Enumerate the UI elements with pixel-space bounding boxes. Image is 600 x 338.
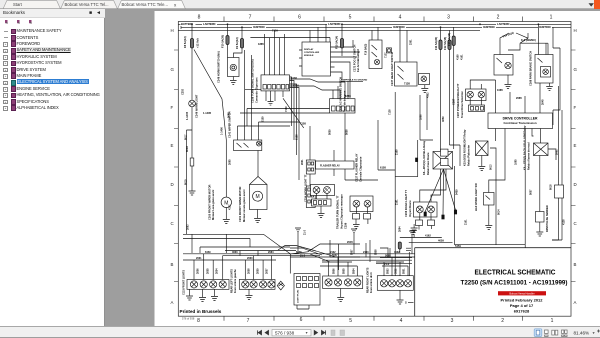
- lamp: [354, 279, 361, 286]
- svg-text:B: B: [574, 262, 577, 267]
- wire mid verticals: [309, 126, 311, 186]
- wire mid long vertical: [394, 92, 396, 276]
- svg-text:5: 5: [349, 318, 352, 324]
- fuse F9: [240, 39, 243, 49]
- wire drops into rear left: [245, 256, 271, 280]
- svg-text:K6—FP2(1) LOW BLA Relay: K6—FP2(1) LOW BLA Relay: [422, 140, 426, 175]
- svg-text:6159: 6159: [205, 251, 211, 254]
- wire drops tail: [384, 258, 408, 276]
- wire: [257, 151, 259, 219]
- ac warning switch C230 connector: [330, 99, 356, 113]
- light plug connector box: [294, 274, 320, 306]
- connector strip rear left lights: [239, 280, 275, 290]
- node IGNITION: [252, 25, 266, 29]
- connector J3 small: [306, 186, 315, 208]
- display controller module U1: [302, 42, 331, 76]
- wire rail: [308, 244, 360, 270]
- white page sheet: [155, 11, 600, 326]
- work light connector: [312, 199, 332, 206]
- svg-text:Relais Feux Route: Relais Feux Route: [426, 152, 430, 175]
- svg-text:Centrale Clignotante: Centrale Clignotante: [359, 156, 363, 182]
- svg-text:1-1405: 1-1405: [185, 111, 189, 120]
- junction dot: [191, 23, 193, 25]
- svg-text:5058: 5058: [385, 255, 391, 258]
- svg-text:Voyant Route: Voyant Route: [408, 200, 412, 217]
- svg-text:4162: 4162: [394, 251, 400, 254]
- lamp: [268, 281, 275, 288]
- ground: [536, 232, 543, 236]
- wire diag merge: [278, 246, 336, 263]
- relay K6-FP2 low beam: [433, 152, 453, 170]
- svg-text:9014: 9014: [498, 209, 501, 215]
- ground: [485, 226, 492, 230]
- turn signal switch connector C258: [261, 75, 290, 91]
- display controller pins: [299, 47, 335, 72]
- sidebar: [0, 9, 105, 326]
- svg-text:DRIVE CONTROLLER: DRIVE CONTROLLER: [503, 117, 538, 121]
- ground: [223, 220, 230, 224]
- lamp: [219, 281, 226, 288]
- wire: [225, 234, 227, 253]
- svg-text:2059: 2059: [257, 268, 260, 274]
- power view connector: [469, 105, 485, 112]
- svg-text:7: 7: [249, 15, 252, 21]
- svg-text:C272 FOG LT SWITCH: C272 FOG LT SWITCH: [353, 45, 357, 72]
- svg-text:Printed February 2012: Printed February 2012: [500, 297, 543, 302]
- svg-text:7138: 7138: [404, 82, 410, 86]
- junction dot: [227, 23, 229, 25]
- roomlight relay K15: [476, 141, 489, 156]
- junction dot: [341, 23, 343, 25]
- lamp: [250, 281, 257, 288]
- node LANTERN: [496, 22, 510, 26]
- wire: [378, 120, 395, 170]
- ground under C115 c: [211, 289, 218, 300]
- svg-text:C230 AC-WARNING SWITCH: C230 AC-WARNING SWITCH: [339, 77, 343, 112]
- svg-text:LAMPHOLE TO GROUND: LAMPHOLE TO GROUND: [341, 79, 368, 82]
- svg-text:6: 6: [298, 15, 301, 21]
- svg-text:576 of 938: 576 of 938: [182, 317, 195, 321]
- svg-text:C: C: [574, 221, 577, 226]
- svg-text:C258 TURN SIGNAL SWITCH (SOA): C258 TURN SIGNAL SWITCH (SOA): [251, 59, 255, 103]
- svg-text:7137: 7137: [385, 52, 388, 58]
- work light lamps C234: [311, 185, 335, 196]
- bottom bar: [0, 326, 600, 337]
- frame column ticks bottom: [224, 316, 523, 321]
- svg-text:5459: 5459: [455, 244, 461, 248]
- svg-text:4138: 4138: [563, 219, 566, 225]
- svg-text:T2250 (S/N AC1911001 - AC19119: T2250 (S/N AC1911001 - AC1911999): [461, 280, 568, 287]
- svg-text:D: D: [574, 182, 577, 187]
- svg-text:C237 HEAD LIGHT SWITCH: C237 HEAD LIGHT SWITCH: [390, 52, 394, 86]
- svg-text:RPM PULSE SENDER: RPM PULSE SENDER: [545, 205, 549, 232]
- wire right margin vertical: [552, 86, 559, 240]
- svg-text:C201 FRONT WIPER MOTOR: C201 FRONT WIPER MOTOR: [238, 186, 242, 222]
- svg-text:2084: 2084: [268, 251, 274, 254]
- svg-text:3: 3: [451, 318, 454, 324]
- svg-text:2045: 2045: [542, 99, 545, 105]
- wire: [345, 179, 378, 181]
- node LANTERN: [327, 22, 341, 26]
- svg-text:F8 5A(12): F8 5A(12): [183, 36, 187, 48]
- wire: [225, 140, 227, 197]
- svg-text:FLASHER RELAY: FLASHER RELAY: [320, 165, 340, 168]
- svg-text:IGNITION: IGNITION: [539, 25, 551, 29]
- svg-text:C287: C287: [452, 98, 456, 105]
- wire: [228, 45, 243, 58]
- svg-text:K-5 (NO/NC): K-5 (NO/NC): [521, 38, 536, 42]
- svg-text:Moteur essuie-glace avant: Moteur essuie-glace avant: [242, 189, 246, 222]
- svg-text:E: E: [171, 143, 174, 148]
- wire: [552, 198, 562, 240]
- terminal pad: [442, 215, 444, 219]
- wire fog switch feeds: [372, 27, 378, 40]
- lamp: [210, 281, 217, 288]
- wire: [341, 24, 343, 56]
- svg-text:1085: 1085: [515, 159, 518, 165]
- node IGNITION: [392, 25, 406, 29]
- wire turn signal fan right: [290, 77, 346, 180]
- wire riser: [366, 240, 370, 262]
- svg-text:Relais Alarme de recul: Relais Alarme de recul: [527, 142, 531, 170]
- svg-text:4063: 4063: [232, 251, 238, 254]
- svg-text:F: F: [171, 105, 174, 110]
- wire: [528, 24, 548, 54]
- wire: [470, 80, 495, 105]
- road light connectors: [416, 220, 435, 226]
- svg-text:5059: 5059: [329, 129, 332, 135]
- svg-text:2045: 2045: [347, 240, 353, 244]
- headlight switch C237: [395, 62, 430, 86]
- svg-text:7159: 7159: [272, 29, 278, 33]
- node IGNITION: [482, 25, 496, 29]
- svg-text:CONTROLLER: CONTROLLER: [304, 52, 320, 54]
- wire: [395, 140, 418, 177]
- wire jog under light plug: [290, 254, 309, 309]
- svg-text:5554: 5554: [353, 268, 356, 274]
- svg-text:4137: 4137: [229, 204, 232, 210]
- node LANTERN: [202, 22, 217, 26]
- svg-text:Page 4 of 17: Page 4 of 17: [510, 303, 534, 308]
- svg-text:H: H: [171, 28, 174, 33]
- wire: [441, 30, 461, 151]
- svg-text:4160: 4160: [457, 54, 460, 60]
- svg-text:5551: 5551: [403, 268, 406, 274]
- lantern bus wire: [178, 29, 480, 31]
- svg-text:Tmo. de detresse: Tmo. de detresse: [343, 90, 347, 112]
- svg-text:6158: 6158: [380, 166, 386, 170]
- svg-text:Relais Plafonnier: Relais Plafonnier: [467, 145, 471, 166]
- wire: [482, 148, 496, 166]
- svg-text:1: 1: [550, 15, 553, 21]
- junction dot: [538, 23, 540, 25]
- svg-text:H: H: [574, 28, 577, 33]
- wire rail right group: [320, 257, 360, 266]
- svg-text:6159: 6159: [262, 116, 265, 122]
- svg-text:2085: 2085: [516, 96, 522, 100]
- wire band risers: [298, 232, 412, 257]
- SECTION: bottom connectors: [183, 228, 415, 309]
- svg-text:2161: 2161: [465, 219, 468, 225]
- svg-text:2061: 2061: [301, 159, 304, 165]
- lamp: [396, 280, 403, 287]
- svg-text:4138: 4138: [291, 76, 297, 80]
- node BATTERY: [181, 22, 196, 26]
- svg-text:+12 Volt: +12 Volt: [195, 38, 199, 48]
- svg-text:8018: 8018: [185, 146, 189, 152]
- svg-text:4139: 4139: [293, 84, 299, 88]
- svg-text:8018: 8018: [550, 184, 553, 190]
- wire: [247, 82, 345, 161]
- wire: [232, 77, 234, 81]
- title block divider lines: [415, 248, 571, 317]
- wire: [317, 193, 328, 213]
- beacon diamond: [277, 281, 284, 290]
- indicator box: [387, 48, 392, 53]
- svg-text:4161: 4161: [461, 54, 464, 60]
- svg-text:F10 5A(30): F10 5A(30): [221, 35, 225, 48]
- road light lamps C206: [414, 202, 438, 217]
- fuse F11: [439, 40, 442, 50]
- red revision bar: [498, 291, 546, 295]
- svg-text:2061: 2061: [196, 257, 202, 260]
- svg-text:C267 POWER BOSRACH TT: C267 POWER BOSRACH TT: [456, 83, 460, 118]
- wire lower rails extra: [183, 239, 290, 254]
- svg-text:8017: 8017: [185, 134, 188, 140]
- wire: [191, 48, 193, 100]
- svg-text:TRAILER TURN SIGNAL TT: TRAILER TURN SIGNAL TT: [336, 195, 340, 229]
- ground under tail: [397, 290, 404, 304]
- svg-text:IGNITION: IGNITION: [393, 25, 405, 29]
- wire: [225, 208, 227, 220]
- wire: [191, 107, 193, 158]
- wire roomlight run: [489, 129, 505, 245]
- connector J2 small: [306, 160, 315, 174]
- wire: [539, 222, 541, 232]
- svg-text:Travel Drive Selection: Travel Drive Selection: [460, 91, 464, 118]
- wire relay to road lights: [420, 169, 446, 202]
- svg-text:5058: 5058: [346, 129, 349, 135]
- schematic frame border: [178, 22, 571, 317]
- wire: [419, 213, 432, 230]
- svg-text:HAZ WORK LIGHT SW: HAZ WORK LIGHT SW: [474, 183, 478, 211]
- terminal pad: [416, 158, 418, 162]
- wire: [540, 149, 556, 212]
- svg-text:Far Anti-Brouillard: Far Anti-Brouillard: [356, 49, 360, 72]
- svg-text:7159: 7159: [285, 106, 288, 112]
- terminal pad: [454, 210, 456, 214]
- svg-text:F9 5A(12): F9 5A(12): [235, 37, 239, 49]
- wire turn signal feeds up: [265, 30, 285, 75]
- wire lamp to ground link: [333, 81, 363, 98]
- park brake switch C259: [535, 55, 553, 84]
- svg-text:S: S: [405, 301, 407, 305]
- fuse F8: [190, 39, 193, 49]
- wire connector rail: [223, 255, 320, 257]
- ground: [410, 231, 417, 235]
- svg-text:8: 8: [198, 15, 201, 21]
- svg-text:Feux arriere gauche: Feux arriere gauche: [234, 269, 237, 293]
- wire: [453, 27, 455, 149]
- lamp: [190, 281, 197, 288]
- row letters left: [171, 28, 175, 305]
- fuse F10: [226, 36, 229, 45]
- wire band rail B: [290, 257, 415, 263]
- svg-text:IGNITION: IGNITION: [483, 25, 495, 29]
- ground band 3: [409, 231, 415, 235]
- wire: [334, 150, 345, 180]
- resistor block: [190, 158, 194, 166]
- svg-text:8: 8: [197, 318, 200, 324]
- wire: [455, 145, 461, 245]
- svg-text:C115 FRONT LIGHTS: C115 FRONT LIGHTS: [183, 270, 186, 295]
- ignition bus wire: [181, 26, 571, 30]
- wire drops into strip C115: [194, 254, 223, 280]
- svg-text:9013: 9013: [490, 164, 493, 170]
- svg-text:5555: 5555: [343, 268, 346, 274]
- tab bar: [0, 0, 600, 9]
- column numbers bottom: [197, 317, 554, 324]
- svg-text:C256: C256: [344, 222, 348, 229]
- ground under rear left: [246, 289, 253, 299]
- wire rail left: [183, 259, 276, 261]
- svg-text:G: G: [171, 67, 175, 72]
- connector boxes trailer: [353, 214, 371, 220]
- svg-text:2160: 2160: [396, 149, 399, 155]
- wire C258 bottom drops: [266, 91, 283, 101]
- svg-text:C253: C253: [182, 88, 185, 95]
- battery bus wire: [178, 23, 571, 25]
- wire stub s: [408, 302, 414, 304]
- svg-text:F: F: [574, 105, 577, 110]
- rpm sender B1: [536, 212, 545, 223]
- row letters right: [574, 28, 578, 305]
- SECTION: left area: [183, 24, 345, 255]
- wire: [500, 33, 509, 84]
- wire right column: [553, 80, 560, 125]
- bottom tiny labels: [183, 251, 408, 305]
- wire battery drop: [191, 24, 193, 38]
- wire: [488, 183, 490, 225]
- ground: [254, 219, 261, 223]
- svg-text:C249 WARN LIGHT: C249 WARN LIGHT: [195, 94, 199, 118]
- svg-text:4059: 4059: [442, 116, 445, 122]
- svg-text:C234 WORK LIGHT TT: C234 WORK LIGHT TT: [304, 174, 308, 202]
- svg-text:F12 5A(15): F12 5A(15): [443, 37, 447, 50]
- wire: [420, 95, 433, 140]
- wire rail tail: [376, 258, 412, 267]
- wire: [426, 95, 428, 130]
- svg-text:F11 5A(26): F11 5A(26): [434, 37, 438, 50]
- svg-text:2361: 2361: [410, 39, 413, 45]
- backup alarm relay K6: [534, 143, 549, 156]
- svg-text:1885: 1885: [345, 94, 351, 98]
- svg-text:2058: 2058: [248, 268, 251, 274]
- fog light switch C272: [369, 40, 382, 69]
- svg-text:8019: 8019: [185, 179, 188, 185]
- frame column ticks top: [224, 17, 523, 22]
- svg-text:2161: 2161: [396, 199, 399, 205]
- svg-text:2: 2: [501, 318, 504, 324]
- svg-text:5459: 5459: [456, 189, 459, 195]
- ground: [353, 225, 360, 229]
- wire: [241, 27, 243, 38]
- svg-text:G: G: [574, 67, 578, 72]
- wire drops rear right: [329, 257, 358, 276]
- svg-text:6158: 6158: [296, 134, 299, 140]
- wire: [553, 27, 560, 80]
- svg-text:DISPLAY: DISPLAY: [304, 48, 314, 51]
- svg-text:4: 4: [400, 318, 403, 324]
- svg-text:F16 5A(3): F16 5A(3): [365, 44, 368, 55]
- wire: [335, 40, 361, 98]
- wire diagonal: [194, 50, 226, 141]
- ground: [478, 167, 485, 171]
- svg-text:6: 6: [300, 317, 303, 323]
- svg-text:2054: 2054: [216, 268, 219, 274]
- lamp: [404, 280, 411, 287]
- svg-text:7138: 7138: [389, 109, 392, 115]
- svg-text:F13 5A(13): F13 5A(13): [447, 33, 451, 46]
- flasher relay K2: [316, 161, 355, 169]
- lamp: [380, 280, 387, 287]
- svg-text:5057: 5057: [332, 254, 338, 257]
- svg-text:4: 4: [399, 15, 402, 21]
- svg-text:Bobcat Versa Handler: Bobcat Versa Handler: [509, 291, 534, 295]
- wire ignition drop: [227, 24, 229, 35]
- svg-text:5553: 5553: [387, 268, 390, 274]
- canvas: [105, 9, 600, 326]
- svg-text:Feux arriere droit: Feux arriere droit: [370, 272, 373, 293]
- fuse F15: [340, 39, 343, 49]
- lamp: [200, 281, 207, 288]
- svg-text:2061: 2061: [556, 149, 559, 155]
- ground: [230, 81, 237, 85]
- horn switch C248: [228, 58, 240, 77]
- wire: [400, 27, 425, 88]
- svg-text:4162: 4162: [427, 92, 430, 98]
- wire drops from drive controller: [496, 129, 541, 245]
- lamp: [334, 279, 341, 286]
- svg-text:IGNITION: IGNITION: [253, 25, 265, 29]
- ground under rear right: [337, 289, 344, 302]
- lamp: [242, 281, 249, 288]
- junction dot: [241, 26, 243, 28]
- svg-text:Voyant Clignotant remorque: Voyant Clignotant remorque: [340, 194, 344, 229]
- svg-text:1-1485: 1-1485: [203, 111, 212, 115]
- svg-text:5556: 5556: [333, 268, 336, 274]
- junction box right margin: [555, 185, 564, 198]
- svg-text:2084: 2084: [399, 226, 402, 232]
- ground: [189, 191, 196, 195]
- svg-text:LANTERN: LANTERN: [328, 22, 341, 26]
- svg-text:F15 5A(14): F15 5A(14): [335, 36, 339, 49]
- ground under C115: [186, 289, 193, 300]
- power view switch C267 lamps: [466, 89, 487, 101]
- svg-text:C206 ROAD LIGHT TT: C206 ROAD LIGHT TT: [404, 190, 408, 217]
- wire: [400, 248, 411, 277]
- svg-text:3: 3: [447, 15, 450, 21]
- svg-text:LANTERN: LANTERN: [203, 22, 216, 26]
- wire relay fan: [425, 169, 456, 215]
- terminal pad: [424, 212, 426, 216]
- frame row ticks right: [571, 50, 576, 282]
- svg-text:5: 5: [349, 15, 352, 21]
- ground: [268, 97, 274, 105]
- drive controller U2: [488, 113, 553, 129]
- wire upper rail: [225, 251, 296, 256]
- svg-text:Comando Clignotant: Comando Clignotant: [255, 77, 259, 103]
